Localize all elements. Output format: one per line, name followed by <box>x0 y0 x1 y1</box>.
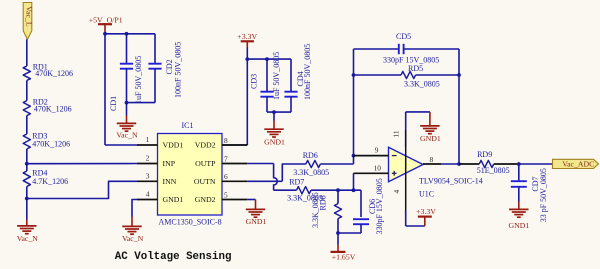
svg-text:3.3K_0805: 3.3K_0805 <box>311 192 320 228</box>
svg-text:100nF 50V_0805: 100nF 50V_0805 <box>174 42 183 98</box>
svg-text:330pF 15V_0805: 330pF 15V_0805 <box>375 178 384 234</box>
svg-text:11: 11 <box>392 130 401 137</box>
svg-text:6: 6 <box>224 172 228 181</box>
svg-text:470K_1206: 470K_1206 <box>32 140 70 149</box>
svg-text:CD1: CD1 <box>109 96 118 111</box>
svg-text:1uF 50V_0805: 1uF 50V_0805 <box>134 56 143 104</box>
svg-text:8: 8 <box>430 155 434 164</box>
svg-text:AMC1350_SOIC-8: AMC1350_SOIC-8 <box>159 218 222 227</box>
svg-text:CD3: CD3 <box>250 74 259 89</box>
svg-text:4: 4 <box>146 190 150 199</box>
svg-text:VDD2: VDD2 <box>195 141 216 150</box>
svg-text:RD4: RD4 <box>32 168 47 177</box>
svg-text:GND2: GND2 <box>195 195 216 204</box>
svg-text:Vac_N: Vac_N <box>17 234 39 243</box>
svg-text:3.3K_0805: 3.3K_0805 <box>293 168 329 177</box>
svg-text:4: 4 <box>392 190 401 194</box>
svg-text:+5V_O/P1: +5V_O/P1 <box>89 15 123 24</box>
svg-text:+3.3V: +3.3V <box>237 32 257 41</box>
svg-text:INN: INN <box>163 177 177 186</box>
svg-text:4.7K_1206: 4.7K_1206 <box>32 177 68 186</box>
svg-text:INP: INP <box>163 159 176 168</box>
svg-text:3: 3 <box>146 172 150 181</box>
svg-text:33 pF 50V_0805: 33 pF 50V_0805 <box>539 168 548 222</box>
svg-text:RD7: RD7 <box>289 177 304 186</box>
svg-text:470K_1206: 470K_1206 <box>35 69 73 78</box>
svg-text:Vac_L: Vac_L <box>24 6 33 27</box>
svg-text:VDD1: VDD1 <box>163 141 184 150</box>
svg-text:8: 8 <box>224 136 228 145</box>
svg-text:RD9: RD9 <box>477 150 492 159</box>
svg-text:+3.3V: +3.3V <box>416 207 436 216</box>
svg-text:GND1: GND1 <box>264 137 285 146</box>
svg-text:10: 10 <box>374 163 382 172</box>
svg-text:RD6: RD6 <box>303 151 318 160</box>
svg-text:RD5: RD5 <box>408 64 423 73</box>
svg-text:470K_1206: 470K_1206 <box>34 104 72 113</box>
svg-text:5: 5 <box>224 190 228 199</box>
svg-text:IC1: IC1 <box>182 121 194 130</box>
svg-text:1uF 50V_0805: 1uF 50V_0805 <box>272 52 281 100</box>
svg-text:+1.65V: +1.65V <box>332 252 356 261</box>
svg-text:51E_0805: 51E_0805 <box>477 166 510 175</box>
svg-text:3.3K_0805: 3.3K_0805 <box>404 79 440 88</box>
svg-text:OUTN: OUTN <box>194 177 216 186</box>
svg-text:Vac_N: Vac_N <box>122 234 144 243</box>
svg-text:TLV9054_SOIC-14: TLV9054_SOIC-14 <box>419 176 483 185</box>
svg-text:2: 2 <box>146 154 150 163</box>
svg-text:U1C: U1C <box>419 189 434 198</box>
svg-text:CD5: CD5 <box>396 32 411 41</box>
svg-text:GND1: GND1 <box>420 134 441 143</box>
svg-text:GND1: GND1 <box>509 221 530 230</box>
svg-text:9: 9 <box>375 146 379 155</box>
svg-text:GND1: GND1 <box>163 195 184 204</box>
svg-text:AC Voltage Sensing: AC Voltage Sensing <box>115 251 232 263</box>
svg-text:OUTP: OUTP <box>195 159 216 168</box>
svg-text:Vac_ADC: Vac_ADC <box>562 160 594 169</box>
svg-text:7: 7 <box>224 154 228 163</box>
svg-text:1: 1 <box>146 135 150 144</box>
svg-text:Vac_N: Vac_N <box>116 131 138 140</box>
svg-text:GND1: GND1 <box>246 217 267 226</box>
svg-text:100nF 50V_0805: 100nF 50V_0805 <box>303 44 312 100</box>
